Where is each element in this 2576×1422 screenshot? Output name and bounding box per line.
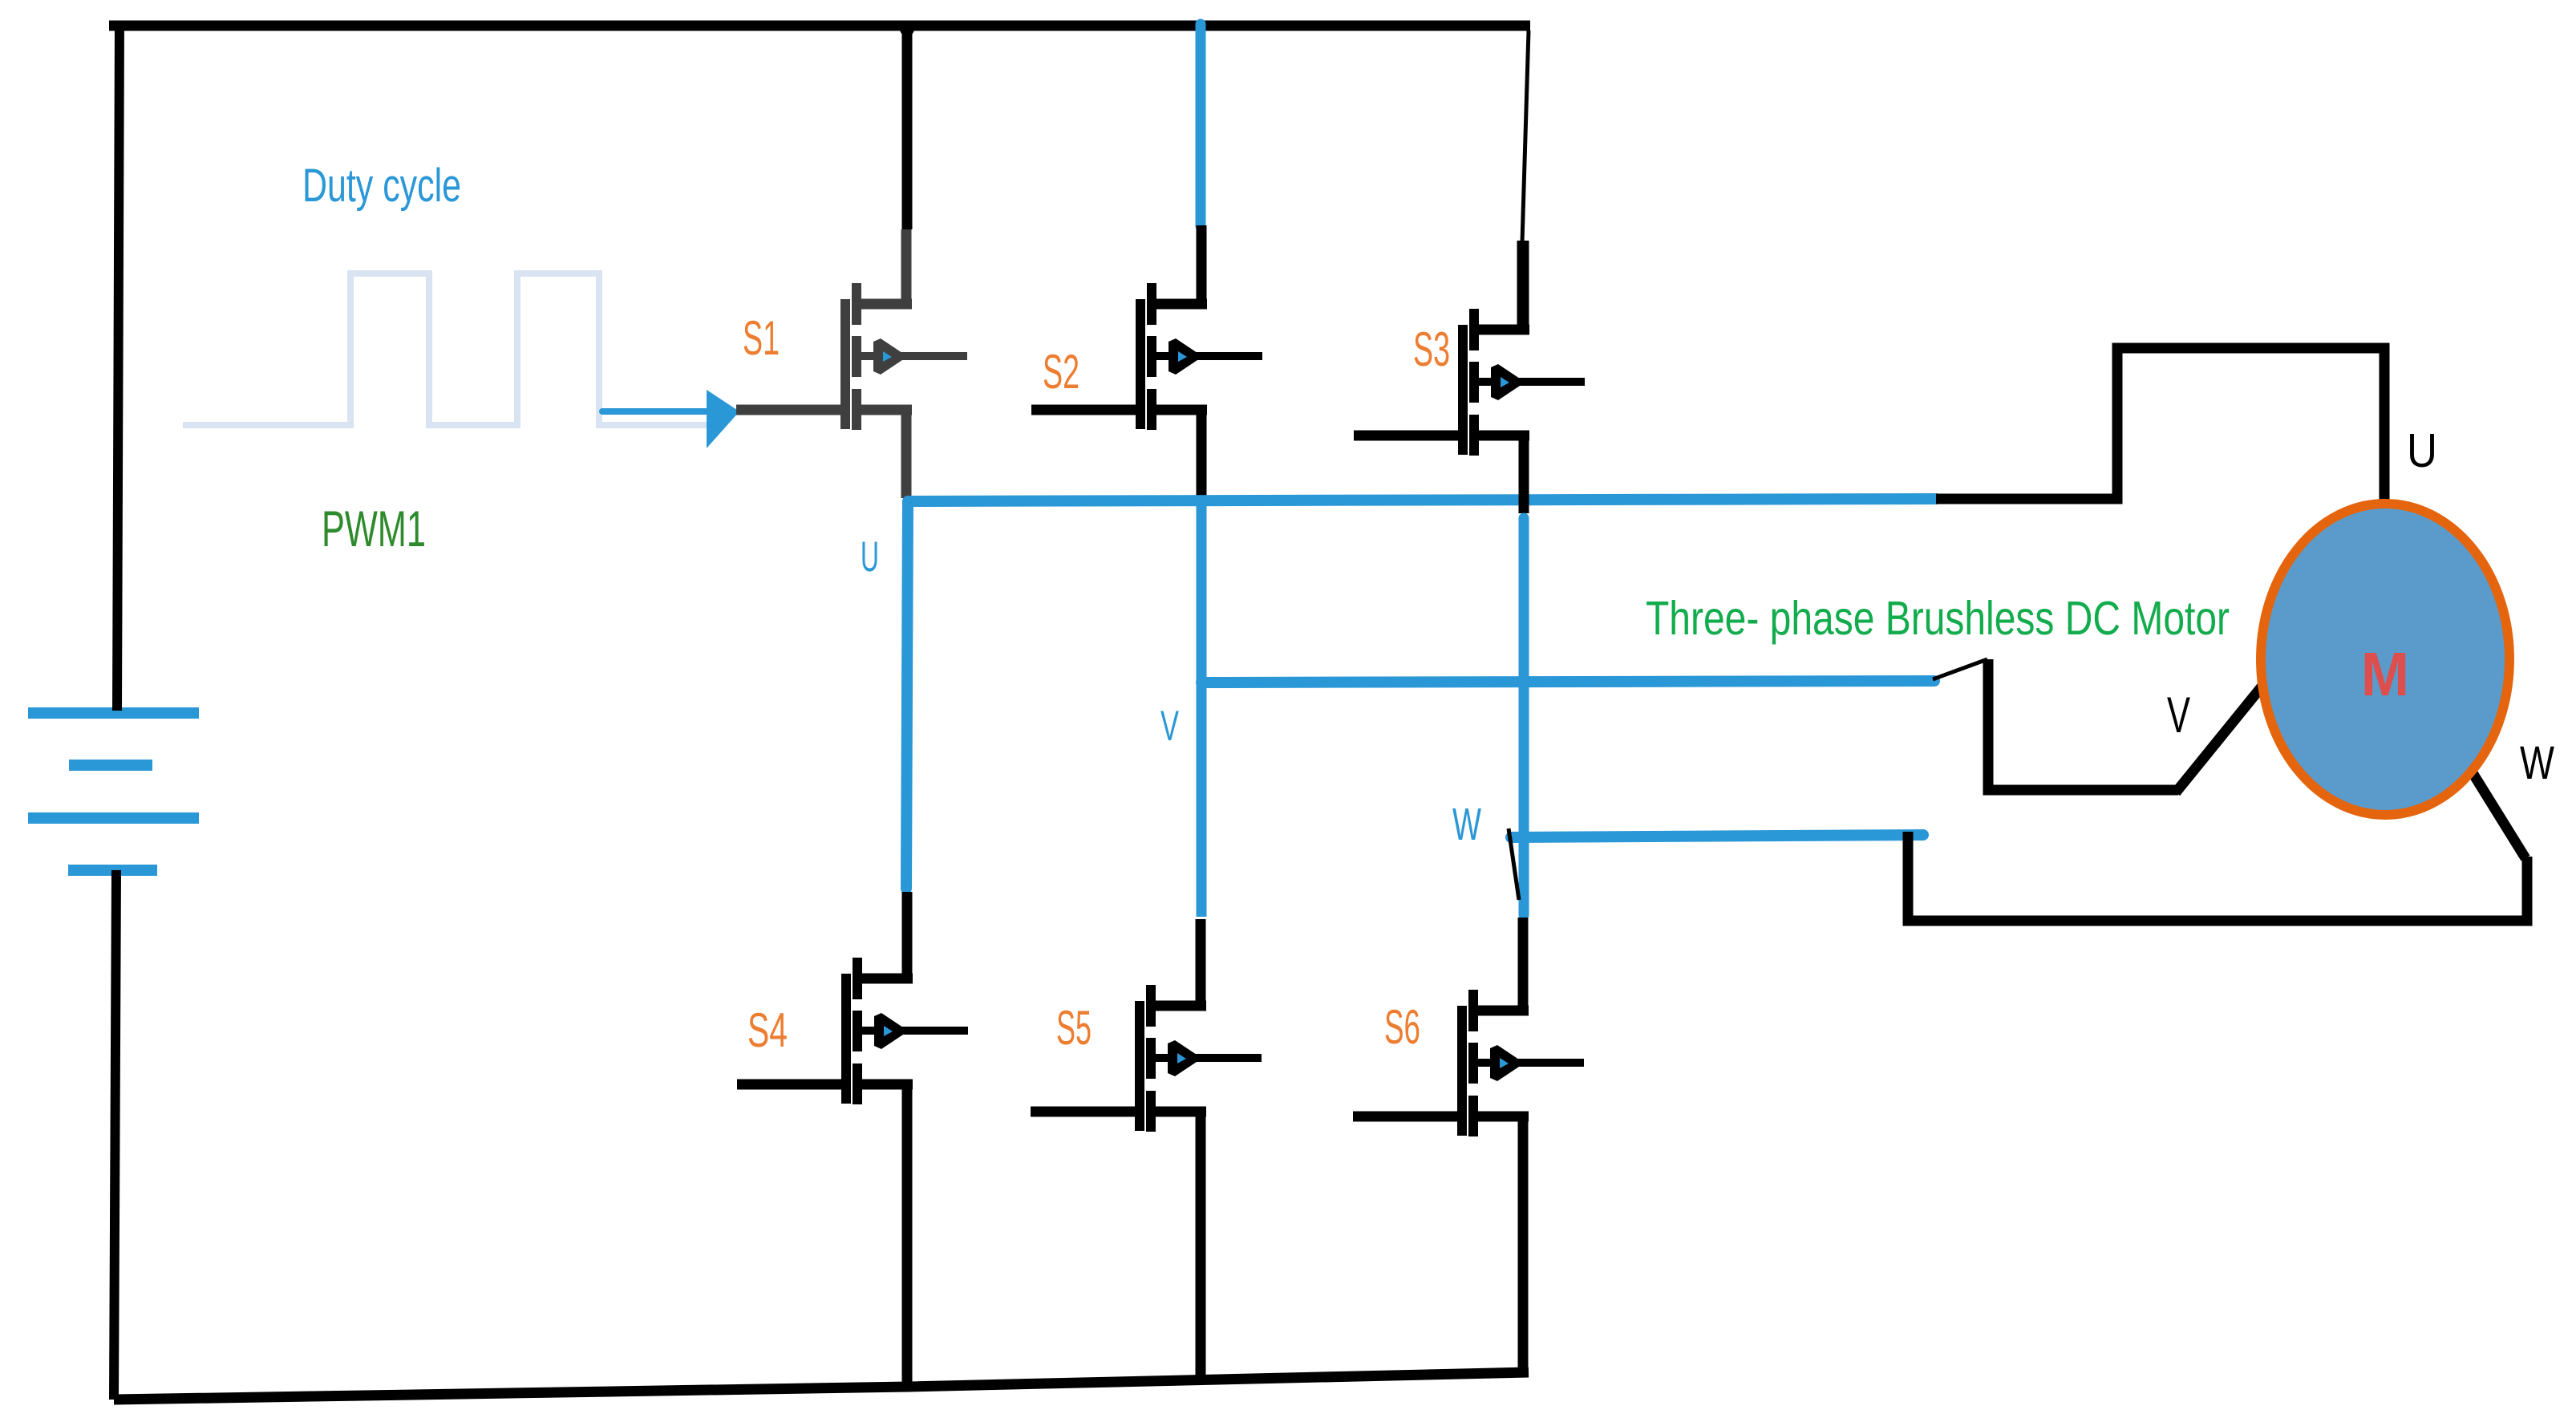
svg-text:S3: S3 (1413, 322, 1450, 376)
transistor S3 (1354, 241, 1585, 513)
svg-text:S5: S5 (1056, 1001, 1092, 1055)
svg-text:V: V (1160, 703, 1179, 750)
svg-text:S2: S2 (1043, 345, 1079, 399)
svg-text:S4: S4 (747, 1003, 788, 1057)
svg-text:S1: S1 (743, 311, 780, 365)
svg-text:U: U (2407, 424, 2437, 477)
node W phase wire (1511, 518, 1923, 915)
svg-text:Three- phase Brushless DC Moto: Three- phase Brushless DC Motor (1646, 592, 2230, 645)
svg-text:U: U (861, 533, 879, 581)
wire bottom return rail (114, 1372, 1529, 1400)
transistor S4 (737, 892, 968, 1387)
transistor S2 (1031, 225, 1262, 500)
svg-text:PWM1: PWM1 (322, 501, 426, 557)
wire S1 drain to top rail (902, 26, 913, 229)
junction top rail / S1 drain (900, 22, 914, 36)
svg-text:W: W (2520, 737, 2554, 789)
PWM duty-cycle waveform (183, 273, 716, 425)
node V phase wire (1201, 504, 1934, 917)
wire U phase to motor (1936, 348, 2384, 505)
svg-text:V: V (2167, 687, 2190, 743)
wire stray mark near W node (1509, 828, 1519, 900)
svg-text:W: W (1452, 799, 1481, 850)
wire battery negative lead (114, 870, 116, 1400)
svg-text:S6: S6 (1384, 1000, 1420, 1054)
wire blue segment top rail to S2 drain (1196, 24, 1206, 226)
battery BT1 (28, 713, 199, 870)
wire V phase to motor (1933, 659, 2266, 792)
node U phase wire (906, 499, 1936, 889)
wire top rail to S3 drain (1522, 30, 1529, 331)
svg-text:M: M (2361, 640, 2409, 709)
transistor S6 (1353, 918, 1584, 1373)
motor M1 (2261, 504, 2509, 815)
transistor S5 (1031, 919, 1262, 1377)
svg-text:Duty cycle: Duty cycle (302, 160, 461, 212)
wire battery positive lead (117, 21, 119, 711)
PWM input arrow (602, 390, 739, 448)
wire top supply rail (109, 21, 1530, 31)
transistor S1 (736, 229, 967, 498)
wire W phase to motor (1908, 772, 2527, 921)
